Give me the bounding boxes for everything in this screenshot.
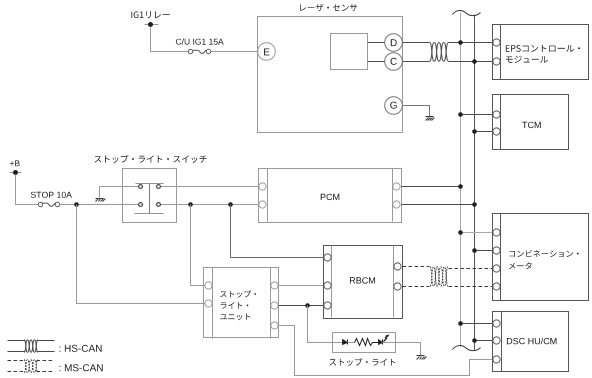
bus break symbol bottom: [453, 346, 481, 351]
junction bus1 / meter: [458, 230, 463, 235]
node IG1 relay terminal: [145, 24, 159, 26]
CAN bus line 2 (right): [474, 15, 476, 351]
label meter line1: [509, 250, 578, 257]
lamp internal feed wire: [333, 342, 343, 344]
DSC HU/CM box: [493, 312, 569, 372]
MS-CAN wire RBCM pin R1 to twist (dashed): [403, 266, 430, 268]
junction node B3: [228, 202, 233, 207]
stop light unit box: [204, 268, 279, 339]
wire fuse to stop light switch: [60, 204, 139, 206]
pin label C: [390, 58, 396, 65]
wire bus1 to TCM pin 1: [461, 114, 493, 116]
wire bus2 to DSC pin 2: [475, 340, 493, 342]
fuse C/U IG1 15A: [188, 49, 210, 53]
junction at +B: [13, 170, 18, 175]
EPS control module box: [493, 25, 589, 80]
legend HS-CAN text: [59, 345, 101, 352]
wire pin D to HS-CAN twist: [403, 42, 430, 44]
junction bus2 / TCM: [472, 129, 477, 134]
bus break symbol top: [453, 11, 481, 16]
wire bus2 to TCM pin 2: [475, 131, 493, 133]
junction bus1 / EPS: [458, 40, 463, 45]
MS-CAN wire twist to meter pin 3 (dashed): [449, 268, 493, 270]
wire node B2 to stop light unit pin L1: [191, 205, 205, 286]
laser sensor box: [258, 17, 403, 133]
pin label D: [391, 39, 397, 46]
wire bus2 to meter pin 2: [475, 250, 493, 252]
label PCM: [321, 194, 340, 200]
node +B battery feed: [10, 172, 22, 174]
label stop light lamp: [329, 358, 395, 366]
legend HS-CAN symbol: [8, 341, 55, 352]
junction node C1 (stop light feed): [305, 303, 310, 308]
label stop light unit line2: [221, 302, 249, 309]
pin E: [258, 43, 276, 61]
switch actuator: [135, 184, 164, 214]
ground (laser sensor): [426, 117, 435, 121]
legend HS-CAN twisted pair: [24, 340, 38, 352]
junction bus1 / TCM: [458, 112, 463, 117]
pin label E: [264, 49, 269, 56]
LED D2 (stop light): [379, 335, 390, 345]
MS-CAN twisted pair (RBCM to meter): [430, 267, 448, 286]
label DSC HU/CM: [507, 338, 557, 345]
label stop light switch: [94, 155, 206, 163]
junction node B2: [188, 202, 193, 207]
wire relay to fuse C/U IG1: [151, 28, 189, 52]
wire bus1 to DSC pin 1: [461, 323, 493, 325]
wire node B3 to RBCM pin L1: [231, 205, 324, 258]
label EPS line1: [506, 45, 580, 52]
wire square to pin C: [368, 61, 385, 63]
stop light lamp box: [333, 333, 396, 353]
pin D: [385, 34, 403, 52]
wire +B to fuse STOP: [16, 175, 38, 205]
junction bus2 / EPS: [472, 59, 477, 64]
TCM box: [493, 95, 569, 150]
legend MS-CAN twisted pair: [24, 360, 38, 373]
wire pin C to HS-CAN twist: [403, 61, 430, 63]
MS-CAN wire RBCM pin R2 to twist (dashed): [403, 286, 430, 288]
junction bus1 / DSC: [458, 321, 463, 326]
label RBCM: [350, 277, 375, 283]
wire PCM to bus2: [402, 204, 475, 206]
RBCM box: [324, 246, 403, 319]
pin G: [385, 97, 403, 115]
wire unit R3 to DSC pin 3 (bottom route): [279, 326, 493, 376]
wire lamp to ground: [383, 343, 421, 356]
label laser sensor: [300, 4, 357, 11]
wire switch NC contact to PCM pin 1: [160, 186, 259, 188]
label stop light unit line3: [220, 313, 250, 320]
pin label G: [390, 102, 397, 109]
MS-CAN wire twist to meter pin 4 (dashed): [449, 286, 493, 288]
diode D1: [343, 340, 355, 345]
ground (stop light switch): [96, 199, 106, 202]
wire pin G to ground: [403, 106, 430, 117]
wire switch NO contact to PCM pin 2: [160, 204, 259, 206]
label +B: [10, 160, 20, 166]
wire switch to ground: [100, 187, 139, 198]
junction node B1 (fuse out): [74, 202, 79, 207]
legend MS-CAN symbol: [8, 361, 55, 372]
PCM box: [259, 169, 402, 223]
wire unit R2 to RBCM L3: [279, 305, 324, 307]
junction bus2 / meter: [472, 248, 477, 253]
pin C: [385, 53, 403, 71]
wire twist to EPS pin 1 (CAN H): [449, 42, 493, 44]
wire bus1 to meter pin 1: [461, 232, 493, 234]
junction bus2 / DSC: [472, 338, 477, 343]
legend MS-CAN text: [59, 364, 102, 371]
junction bus1 / PCM: [458, 184, 463, 189]
value label fuse STOP 10A: [31, 192, 72, 198]
wire fuse to laser sensor pin E: [211, 51, 259, 53]
junction bus2 / PCM: [472, 202, 477, 207]
wire square to pin D: [368, 42, 385, 44]
ground (stop light lamp): [417, 356, 427, 360]
wire unit R1 to RBCM L2: [279, 285, 324, 287]
combination meter box: [493, 214, 589, 301]
laser sensor internal unit square: [331, 34, 368, 70]
switch contacts: [139, 185, 161, 207]
CAN bus line 1 (left): [460, 13, 462, 347]
stop light switch box: [123, 169, 177, 223]
label TCM: [522, 122, 541, 128]
wire node B1 to stop light unit pin L2: [77, 205, 205, 304]
label meter line2: [509, 262, 532, 269]
wire node C1 to stop light lamp: [308, 306, 333, 343]
wire twist to EPS pin 2 (CAN L): [449, 61, 493, 63]
label IG1 relay: [131, 11, 169, 18]
wire PCM to bus1: [402, 186, 461, 188]
value label fuse 15A: [176, 38, 224, 44]
fuse STOP 10A: [38, 202, 59, 206]
RBCM connector strips: [332, 246, 394, 318]
label EPS line2: [506, 56, 548, 63]
resistor R1: [355, 339, 379, 346]
junction at IG1 relay: [148, 22, 153, 27]
label stop light unit line1: [220, 290, 256, 297]
HS-CAN twisted pair (laser to bus): [430, 43, 449, 62]
